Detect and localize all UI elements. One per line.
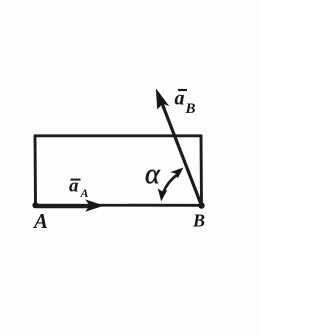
wire rectangle right edge [200,136,203,206]
svg-text:A: A [80,186,89,200]
label aA macron [71,179,81,181]
vector aB shaft [162,102,202,206]
angle arc arrowhead top [170,168,183,179]
svg-text:A: A [32,209,48,233]
angle arc arrowhead bottom [158,188,168,201]
wire rectangle left edge [34,136,37,206]
svg-text:B: B [192,211,205,231]
node B dot [198,202,204,208]
wire rectangle top edge [35,134,201,137]
node A dot [32,202,38,208]
svg-text:α: α [145,159,161,190]
wire rectangle bottom edge A to B [36,204,202,207]
svg-text:B: B [185,101,196,117]
angle arc alpha [163,175,177,193]
label aB macron [178,89,187,91]
vector aB arrowhead [156,88,169,109]
vector aA arrowhead [85,199,104,211]
vector aA shaft [37,205,90,208]
